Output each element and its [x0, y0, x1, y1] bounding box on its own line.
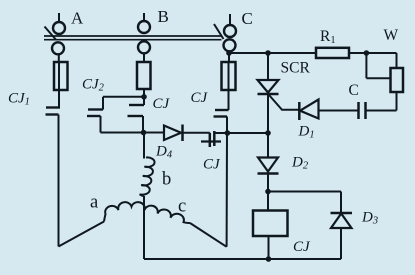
svg-text:a: a	[90, 193, 98, 213]
svg-text:C: C	[242, 9, 253, 28]
svg-text:C: C	[349, 82, 359, 99]
svg-text:CJ: CJ	[293, 239, 311, 255]
svg-text:A: A	[71, 9, 84, 28]
svg-text:W: W	[384, 27, 399, 44]
svg-text:CJ: CJ	[153, 96, 171, 112]
svg-text:SCR: SCR	[281, 60, 311, 77]
svg-text:c: c	[178, 197, 186, 217]
svg-text:CJ: CJ	[191, 90, 209, 106]
svg-text:B: B	[158, 7, 169, 26]
svg-text:b: b	[162, 170, 171, 190]
svg-text:CJ: CJ	[203, 157, 221, 173]
